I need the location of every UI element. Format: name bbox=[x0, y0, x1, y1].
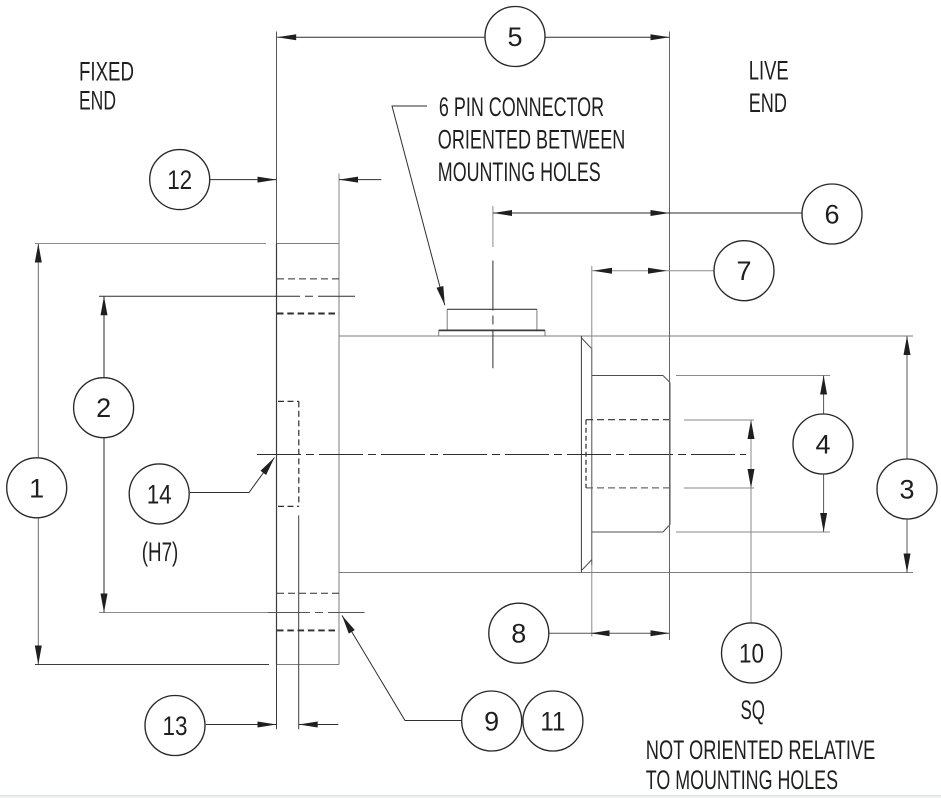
dimension 7 square length line bbox=[592, 268, 714, 274]
svg-text:ORIENTED BETWEEN: ORIENTED BETWEEN bbox=[438, 125, 626, 155]
square drive shaft outline bbox=[592, 376, 670, 533]
extension lines square hole dim10 bbox=[684, 420, 754, 488]
dimension 5 overall length line bbox=[277, 34, 669, 40]
extension line connector center upper bbox=[492, 206, 494, 247]
balloon 12 bbox=[150, 150, 210, 210]
main cylindrical body outline bbox=[339, 336, 913, 573]
hidden line bottom mounting hole bbox=[277, 593, 339, 630]
note not oriented bbox=[646, 735, 876, 795]
balloon 13 bbox=[145, 696, 205, 756]
balloon 11 bbox=[523, 691, 583, 751]
svg-text:FIXED: FIXED bbox=[79, 57, 134, 87]
svg-text:(H7): (H7) bbox=[142, 537, 179, 567]
connector body bbox=[447, 309, 537, 330]
balloon 10 bbox=[722, 623, 782, 683]
svg-text:12: 12 bbox=[167, 165, 192, 195]
balloon 9 bbox=[462, 691, 522, 751]
boss face / extension line at x=591.8 bbox=[591, 266, 593, 349]
extension lines square shaft diameter dim4 bbox=[676, 376, 830, 533]
dimension 6 connector to live end line bbox=[493, 210, 802, 216]
leader balloon 14 bbox=[190, 458, 275, 493]
flange body outline bbox=[277, 244, 340, 665]
connector vertical centerline bbox=[492, 261, 494, 369]
connector base plate bbox=[439, 330, 545, 335]
dimension 4 shaft diameter vertical bbox=[820, 376, 827, 533]
boss chamfer edges bbox=[582, 339, 592, 571]
svg-text:SQ: SQ bbox=[741, 695, 766, 725]
balloon 6 bbox=[802, 184, 862, 244]
leader connector note bbox=[392, 106, 445, 305]
top mounting hole centerline bbox=[99, 295, 355, 297]
balloon 2 bbox=[74, 378, 134, 438]
svg-text:1: 1 bbox=[29, 473, 44, 503]
balloon 1 bbox=[7, 458, 67, 518]
dimension 13 pilot depth bbox=[206, 722, 338, 728]
svg-text:MOUNTING HOLES: MOUNTING HOLES bbox=[438, 157, 601, 187]
label LIVE END bbox=[749, 56, 789, 118]
bottom window edge strip bbox=[0, 796, 941, 798]
dimension 3 body diameter vertical bbox=[904, 336, 911, 573]
bottom mounting hole centerline bbox=[99, 612, 365, 614]
extension line below flange left edge bbox=[276, 665, 278, 730]
svg-text:LIVE: LIVE bbox=[749, 56, 789, 86]
extension line hole depth x=298.7 bbox=[298, 515, 300, 729]
svg-text:2: 2 bbox=[96, 393, 111, 423]
dimension 12 flange thickness bbox=[210, 177, 382, 183]
svg-text:END: END bbox=[749, 88, 787, 118]
svg-text:NOT ORIENTED RELATIVE: NOT ORIENTED RELATIVE bbox=[646, 735, 876, 765]
svg-text:7: 7 bbox=[736, 256, 751, 286]
balloon 3 bbox=[877, 459, 937, 519]
dimension 10 square size vertical bbox=[748, 420, 755, 624]
hidden line top mounting hole bbox=[277, 279, 339, 314]
svg-text:4: 4 bbox=[815, 430, 830, 460]
svg-text:14: 14 bbox=[147, 479, 172, 509]
balloon 8 bbox=[489, 603, 549, 663]
extension line above flange left edge bbox=[276, 32, 278, 244]
extension line shaft end x=669.5 bbox=[669, 32, 671, 641]
svg-text:6 PIN CONNECTOR: 6 PIN CONNECTOR bbox=[439, 92, 604, 122]
svg-text:13: 13 bbox=[163, 711, 188, 741]
hidden line square drive hole bbox=[586, 420, 670, 488]
svg-text:10: 10 bbox=[739, 638, 764, 668]
balloon 7 bbox=[714, 241, 774, 301]
svg-text:11: 11 bbox=[540, 707, 565, 737]
dimension 8 line bbox=[549, 630, 670, 636]
leader balloons 9 and 11 bbox=[342, 616, 462, 721]
balloon 4 bbox=[793, 414, 853, 474]
balloon 5 bbox=[485, 7, 545, 67]
svg-text:3: 3 bbox=[899, 475, 914, 505]
dimension 1 flange diameter vertical bbox=[35, 244, 269, 665]
note 6 pin connector bbox=[438, 92, 626, 187]
main horizontal centerline bbox=[257, 454, 746, 456]
label FIXED END bbox=[79, 57, 134, 116]
hidden line center pilot hole H7 bbox=[278, 401, 299, 506]
svg-text:8: 8 bbox=[511, 619, 526, 649]
svg-text:5: 5 bbox=[507, 22, 522, 52]
svg-text:9: 9 bbox=[484, 707, 499, 737]
balloon 14 bbox=[129, 464, 189, 524]
svg-text:TO MOUNTING HOLES: TO MOUNTING HOLES bbox=[646, 765, 838, 795]
extension line flange right top bbox=[338, 174, 340, 244]
dimension 2 bolt hole spacing vertical bbox=[101, 296, 108, 612]
svg-text:6: 6 bbox=[824, 200, 839, 230]
svg-text:END: END bbox=[79, 86, 116, 116]
